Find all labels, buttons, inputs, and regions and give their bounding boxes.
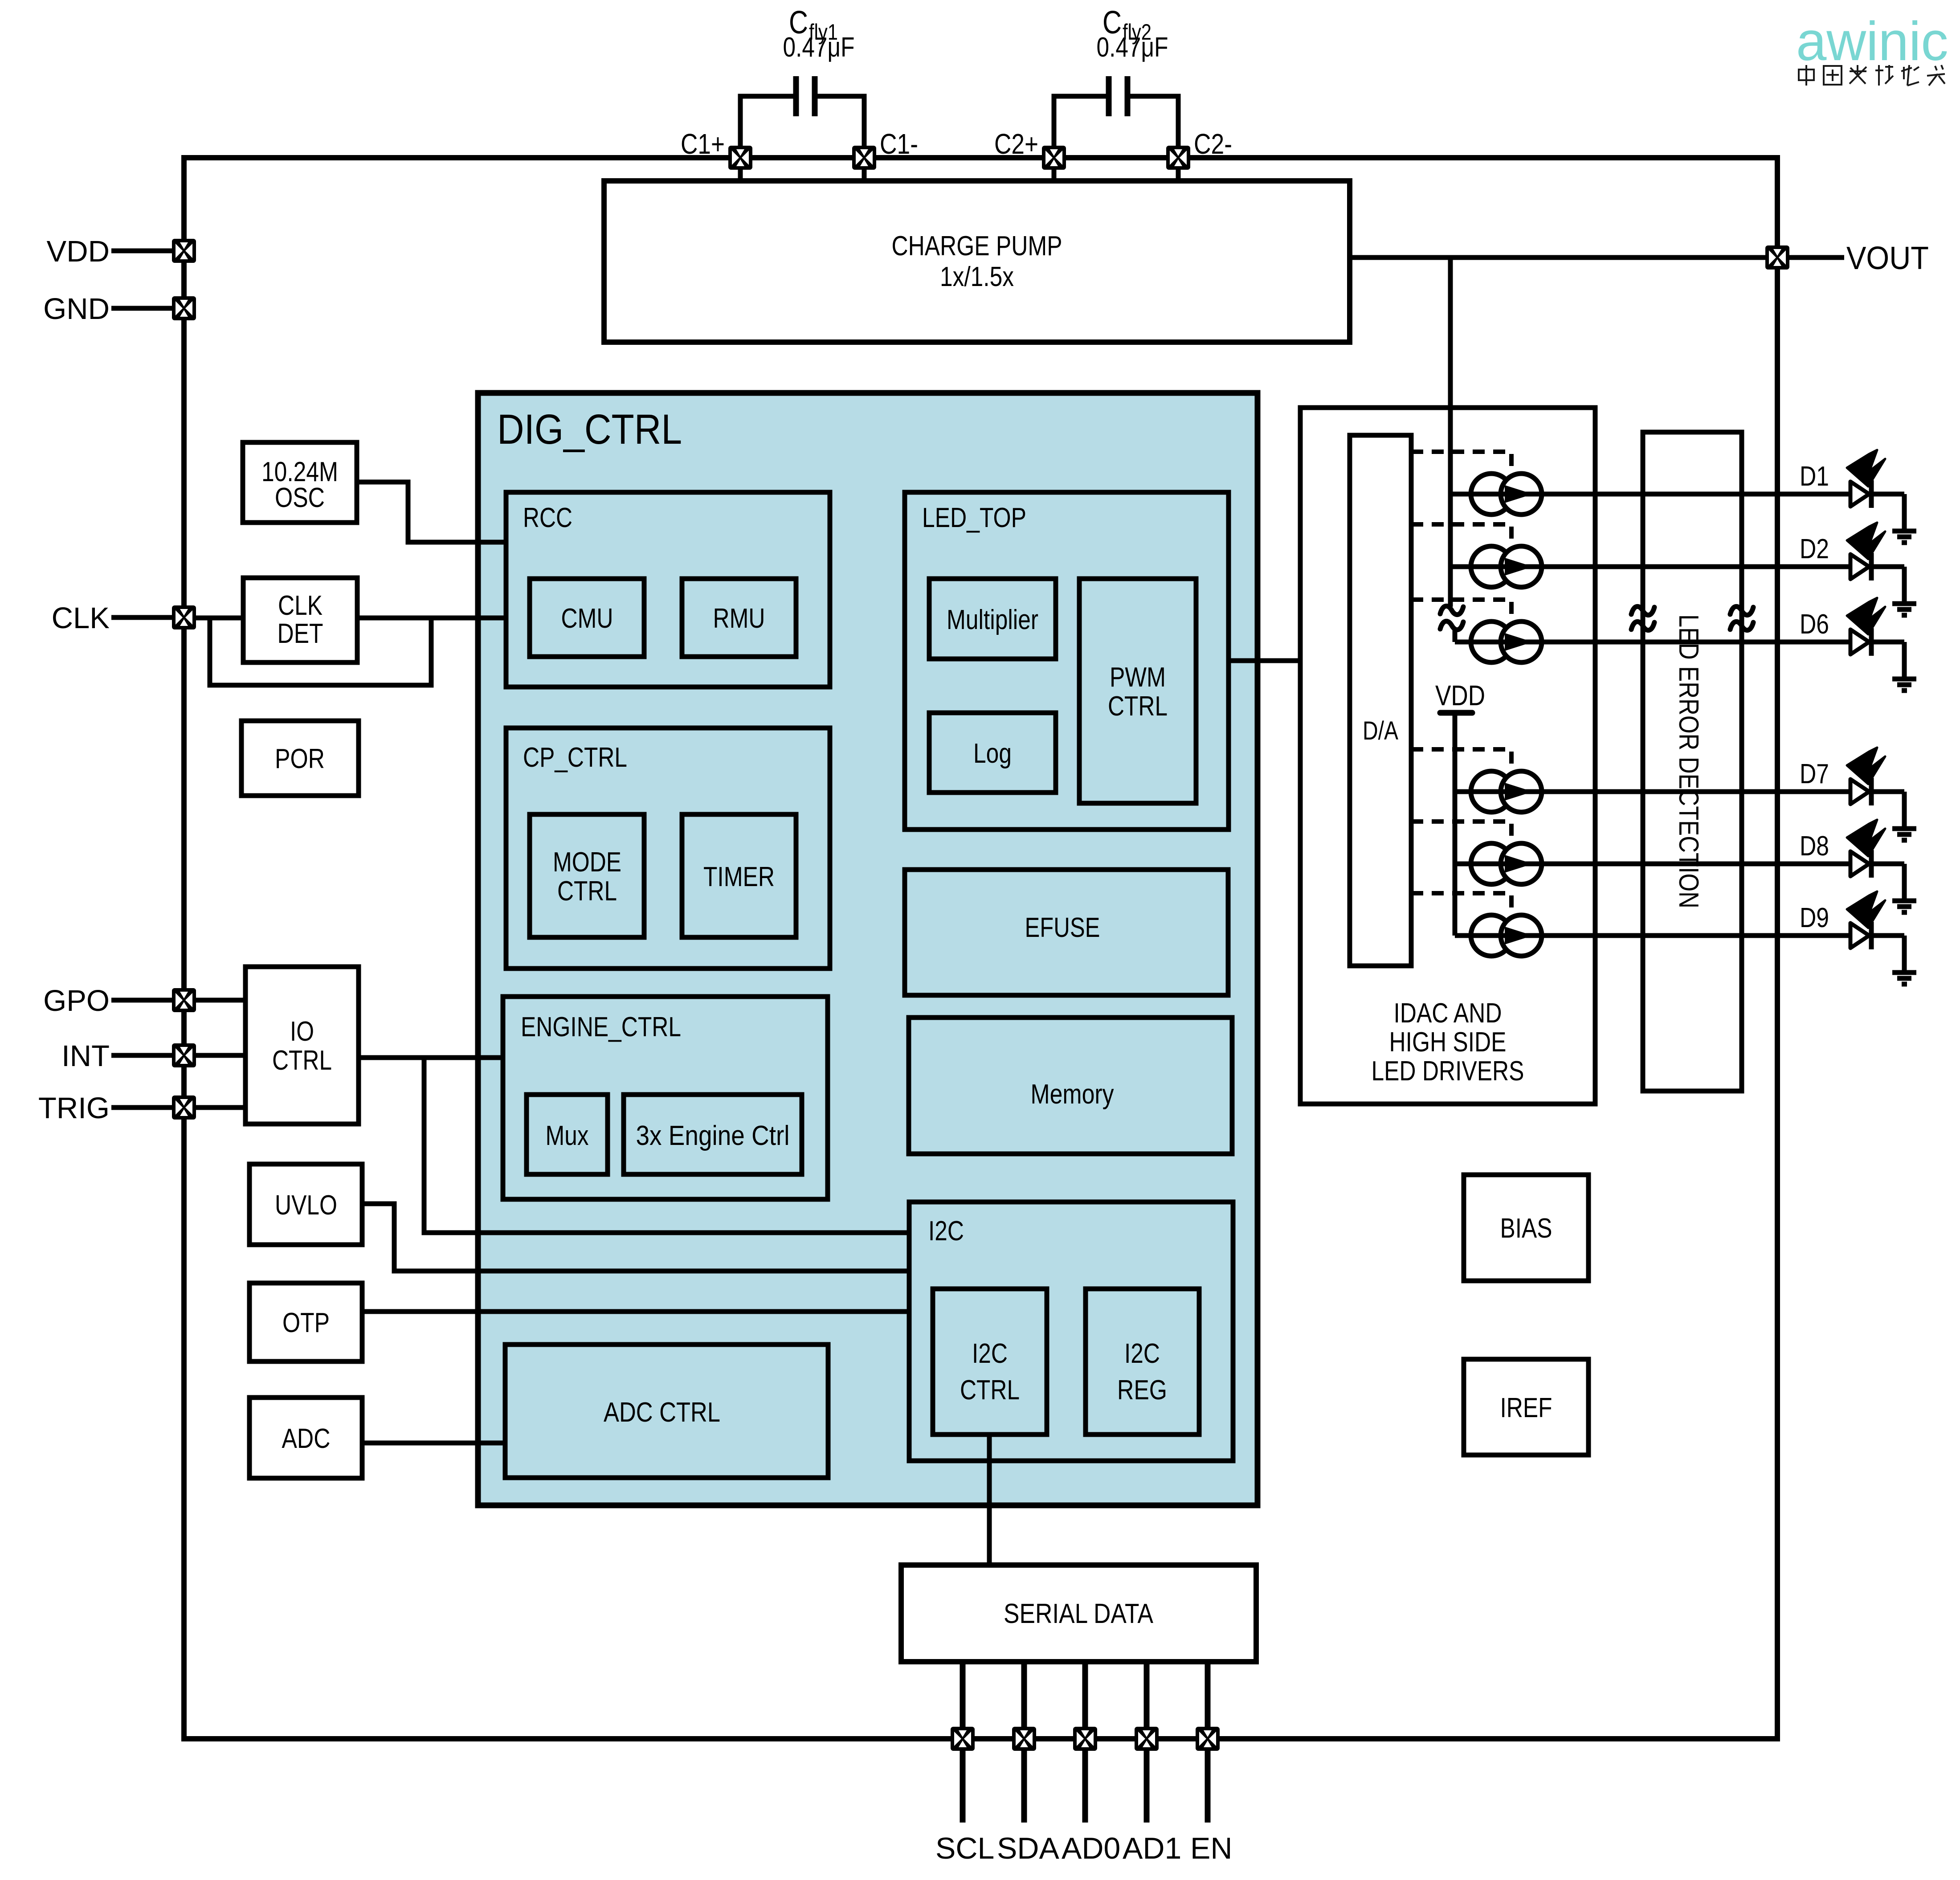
chip boundary box bbox=[184, 158, 1777, 1739]
svg-text:Log: Log bbox=[973, 738, 1012, 769]
squiggle break detection box right edge bbox=[1730, 606, 1753, 630]
svg-text:HIGH SIDE: HIGH SIDE bbox=[1389, 1027, 1507, 1058]
svg-text:D/A: D/A bbox=[1363, 716, 1398, 745]
svg-text:VDD: VDD bbox=[47, 235, 110, 268]
svg-text:CTRL: CTRL bbox=[960, 1375, 1020, 1406]
svg-text:LED DRIVERS: LED DRIVERS bbox=[1372, 1056, 1524, 1087]
OTP block bbox=[249, 1283, 362, 1361]
wire D7 channel bbox=[1455, 789, 1849, 794]
EFUSE block bbox=[905, 870, 1228, 995]
I2C REG block bbox=[1086, 1289, 1199, 1435]
svg-text:TRIG: TRIG bbox=[38, 1091, 110, 1125]
IREF block bbox=[1464, 1359, 1588, 1455]
svg-text:awinic: awinic bbox=[1796, 11, 1948, 72]
pin VOUT bbox=[1765, 241, 1929, 276]
wire CLK DET to RCC bbox=[357, 616, 506, 621]
svg-text:REG: REG bbox=[1117, 1375, 1167, 1406]
svg-text:OSC: OSC bbox=[275, 482, 325, 513]
svg-text:CHARGE PUMP: CHARGE PUMP bbox=[892, 231, 1062, 262]
current source arrow D7 bbox=[1505, 783, 1533, 801]
svg-text:Mux: Mux bbox=[546, 1120, 589, 1151]
wire GND lead bbox=[111, 306, 172, 311]
svg-text:OTP: OTP bbox=[282, 1308, 330, 1338]
dashed D/A control to D8 driver bbox=[1411, 821, 1511, 852]
charge pump U1 bbox=[604, 181, 1350, 342]
LED_TOP block bbox=[905, 492, 1229, 830]
awinic logo bbox=[1796, 11, 1948, 72]
BIAS block bbox=[1464, 1175, 1588, 1281]
svg-text:CLK: CLK bbox=[52, 601, 110, 635]
current source arrow D1 bbox=[1505, 485, 1533, 503]
wire VDD lead bbox=[111, 249, 172, 253]
I2C block bbox=[909, 1202, 1233, 1461]
wire ADC to ADC CTRL bbox=[362, 1441, 505, 1446]
dashed D/A control to D2 driver bbox=[1411, 524, 1511, 555]
wire LED_TOP to IDAC drivers bbox=[1229, 658, 1300, 663]
LED D7 bbox=[1800, 748, 1904, 829]
svg-text:POR: POR bbox=[275, 744, 325, 774]
wire I2C CTRL to SERIAL DATA bbox=[987, 1435, 992, 1565]
svg-text:SERIAL DATA: SERIAL DATA bbox=[1004, 1598, 1154, 1629]
svg-text:PWM: PWM bbox=[1110, 662, 1166, 693]
wire AD1 stub bbox=[1144, 1662, 1150, 1823]
ground D9 bbox=[1892, 973, 1916, 984]
current source D2 driver bbox=[1471, 546, 1542, 587]
svg-text:D1: D1 bbox=[1800, 461, 1829, 492]
wire D9 channel bbox=[1455, 933, 1849, 938]
LED error detection block bbox=[1643, 432, 1742, 1091]
Mux block bbox=[527, 1095, 608, 1174]
current source D7 driver bbox=[1471, 771, 1542, 812]
LED D6 bbox=[1800, 598, 1904, 679]
squiggle break top feed bbox=[1440, 606, 1463, 629]
current source arrow D9 bbox=[1505, 927, 1533, 944]
wire D1 channel bbox=[1450, 492, 1849, 497]
wire C2- stub bbox=[1176, 170, 1181, 181]
current source arrow D2 bbox=[1505, 558, 1533, 576]
svg-text:0.47μF: 0.47μF bbox=[783, 32, 855, 63]
ground D8 bbox=[1892, 901, 1916, 912]
capacitor Cfly1 0.47uF bbox=[740, 5, 864, 146]
Multiplier block bbox=[929, 579, 1056, 659]
CP_CTRL block bbox=[506, 728, 830, 969]
svg-text:AD0: AD0 bbox=[1062, 1831, 1120, 1865]
logo Chinese tagline bbox=[1799, 65, 1945, 86]
pin TRIG bbox=[38, 1091, 196, 1125]
wire OSC to RCC bbox=[357, 482, 506, 542]
MODE CTRL block bbox=[530, 814, 644, 937]
current source D9 driver bbox=[1471, 915, 1542, 956]
pin GPO bbox=[43, 984, 196, 1018]
oscillator 10.24M OSC block bbox=[243, 442, 357, 523]
wire D6 channel bbox=[1455, 640, 1849, 645]
svg-text:I2C: I2C bbox=[928, 1216, 964, 1247]
dashed D/A control to D7 driver bbox=[1411, 749, 1511, 780]
wire TRIG lead bbox=[111, 1105, 245, 1110]
svg-text:0.47μF: 0.47μF bbox=[1097, 32, 1168, 63]
wire AD0 stub bbox=[1082, 1662, 1088, 1823]
LED D8 bbox=[1800, 820, 1904, 901]
CMU block bbox=[530, 579, 644, 657]
wire C1+ stub bbox=[738, 170, 743, 181]
wire feed to D6 driver bbox=[1453, 630, 1458, 642]
wire GPO lead bbox=[111, 998, 245, 1003]
VDD supply symbol bbox=[1435, 679, 1485, 713]
svg-text:VOUT: VOUT bbox=[1846, 241, 1929, 276]
wire CLK lead bbox=[111, 615, 172, 620]
pin EN bbox=[1196, 1727, 1220, 1751]
PWM CTRL block bbox=[1079, 579, 1196, 803]
svg-text:C2-: C2- bbox=[1194, 128, 1232, 160]
svg-text:I2C: I2C bbox=[972, 1338, 1008, 1369]
svg-text:MODE: MODE bbox=[553, 847, 621, 878]
ground D1 bbox=[1892, 531, 1916, 543]
svg-text:IREF: IREF bbox=[1500, 1393, 1552, 1423]
svg-text:DIG_CTRL: DIG_CTRL bbox=[497, 406, 682, 453]
RCC block bbox=[506, 492, 830, 687]
pin CLK bbox=[52, 601, 196, 635]
pin C1+ bbox=[681, 128, 752, 170]
svg-text:ADC CTRL: ADC CTRL bbox=[604, 1397, 720, 1428]
wire IO CTRL to ENGINE_CTRL bbox=[359, 1055, 503, 1060]
svg-text:CTRL: CTRL bbox=[272, 1045, 332, 1076]
RMU block bbox=[682, 579, 796, 657]
svg-text:GND: GND bbox=[43, 292, 110, 326]
svg-text:DET: DET bbox=[278, 618, 323, 649]
pin AD0 bbox=[1073, 1727, 1097, 1751]
svg-text:CP_CTRL: CP_CTRL bbox=[523, 742, 627, 773]
svg-text:CTRL: CTRL bbox=[557, 876, 617, 907]
wire SCL stub bbox=[960, 1662, 966, 1823]
ground D2 bbox=[1892, 604, 1916, 615]
bottom pin labels SCL SDA AD0 AD1 EN bbox=[935, 1831, 1232, 1865]
svg-text:CLK: CLK bbox=[278, 590, 323, 621]
ENGINE_CTRL block bbox=[503, 997, 828, 1199]
wire UVLO to I2C bbox=[362, 1204, 909, 1271]
Log block bbox=[929, 713, 1056, 793]
pin C2+ bbox=[994, 128, 1066, 170]
current source arrow D8 bbox=[1505, 855, 1533, 873]
svg-text:INT: INT bbox=[61, 1039, 110, 1073]
ADC block bbox=[249, 1398, 362, 1478]
CLK DET block bbox=[243, 578, 357, 662]
UVLO block bbox=[249, 1164, 362, 1245]
pin VDD bbox=[47, 235, 196, 268]
LED D1 bbox=[1800, 450, 1904, 531]
svg-text:I2C: I2C bbox=[1124, 1338, 1160, 1369]
svg-text:ENGINE_CTRL: ENGINE_CTRL bbox=[521, 1012, 681, 1042]
wire CLK bypass under CLK DET bbox=[210, 618, 431, 685]
TIMER block bbox=[682, 814, 796, 937]
pin GND bbox=[43, 292, 196, 326]
dashed D/A control to D1 driver bbox=[1411, 452, 1511, 482]
dashed D/A control to D9 driver bbox=[1411, 893, 1511, 924]
pin C1- bbox=[852, 128, 918, 170]
pin SDA bbox=[1012, 1727, 1036, 1751]
svg-text:D6: D6 bbox=[1800, 609, 1829, 640]
wire VOUT feed to top driver group bbox=[1448, 257, 1453, 607]
svg-text:D2: D2 bbox=[1800, 534, 1829, 564]
ground D7 bbox=[1892, 829, 1916, 840]
svg-text:D9: D9 bbox=[1800, 903, 1829, 933]
D/A converter block bbox=[1350, 435, 1411, 966]
svg-text:RCC: RCC bbox=[523, 503, 572, 533]
SERIAL DATA block bbox=[901, 1565, 1256, 1662]
svg-text:Memory: Memory bbox=[1031, 1079, 1114, 1110]
svg-text:D8: D8 bbox=[1800, 831, 1829, 862]
wire CLK pin to CLK DET bbox=[196, 616, 243, 621]
dashed D/A control to D6 driver bbox=[1411, 600, 1511, 630]
svg-text:CMU: CMU bbox=[561, 603, 613, 634]
wire C2+ stub bbox=[1052, 170, 1057, 181]
svg-text:C1+: C1+ bbox=[681, 128, 725, 160]
svg-text:ADC: ADC bbox=[282, 1423, 331, 1454]
wire OTP to I2C bbox=[362, 1309, 909, 1314]
I2C CTRL block bbox=[933, 1289, 1047, 1435]
wire IO CTRL branch to I2C bbox=[424, 1058, 909, 1233]
current source arrow D6 bbox=[1505, 633, 1533, 651]
svg-text:IO: IO bbox=[290, 1016, 314, 1047]
svg-text:EFUSE: EFUSE bbox=[1025, 912, 1100, 943]
DIG_CTRL digital control block bbox=[478, 393, 1258, 1505]
POR block bbox=[241, 721, 359, 796]
wire D8 channel bbox=[1455, 862, 1849, 866]
svg-text:BIAS: BIAS bbox=[1500, 1213, 1552, 1244]
LED D9 bbox=[1800, 891, 1904, 973]
svg-text:LED_TOP: LED_TOP bbox=[922, 503, 1026, 533]
svg-text:RMU: RMU bbox=[713, 603, 765, 634]
svg-text:SDA: SDA bbox=[997, 1831, 1059, 1865]
pin INT bbox=[61, 1039, 196, 1073]
svg-text:VDD: VDD bbox=[1435, 679, 1485, 711]
svg-text:Multiplier: Multiplier bbox=[947, 605, 1038, 635]
LED D2 bbox=[1800, 523, 1904, 604]
wire SDA stub bbox=[1021, 1662, 1027, 1823]
svg-text:C1-: C1- bbox=[880, 128, 918, 160]
IO CTRL block bbox=[245, 967, 359, 1124]
wire VDD feed to bottom driver group bbox=[1453, 713, 1458, 936]
3x Engine Ctrl block bbox=[624, 1095, 802, 1174]
wire charge pump to VOUT bbox=[1350, 255, 1777, 260]
pin AD1 bbox=[1135, 1727, 1159, 1751]
squiggle break detection box left edge bbox=[1631, 606, 1654, 630]
svg-text:EN: EN bbox=[1190, 1831, 1232, 1865]
svg-text:IDAC AND: IDAC AND bbox=[1394, 998, 1502, 1029]
svg-text:C2+: C2+ bbox=[994, 128, 1038, 160]
svg-text:1x/1.5x: 1x/1.5x bbox=[940, 262, 1014, 292]
svg-text:AD1: AD1 bbox=[1123, 1831, 1181, 1865]
wire INT lead bbox=[111, 1053, 245, 1058]
IDAC and high side LED drivers block bbox=[1300, 408, 1595, 1104]
svg-text:UVLO: UVLO bbox=[275, 1190, 337, 1221]
Memory block bbox=[909, 1018, 1232, 1154]
svg-text:3x Engine Ctrl: 3x Engine Ctrl bbox=[636, 1120, 790, 1151]
current source D1 driver bbox=[1471, 474, 1542, 515]
current source D6 driver bbox=[1471, 621, 1542, 662]
pin C2- bbox=[1166, 128, 1232, 170]
wire D2 channel bbox=[1450, 564, 1849, 569]
current source D8 driver bbox=[1471, 843, 1542, 884]
ground D6 bbox=[1892, 679, 1916, 691]
pin SCL bbox=[951, 1727, 975, 1751]
wire C1- stub bbox=[862, 170, 867, 181]
svg-text:SCL: SCL bbox=[935, 1831, 994, 1865]
capacitor Cfly2 0.47uF bbox=[1054, 5, 1178, 146]
wire EN stub bbox=[1205, 1662, 1211, 1823]
svg-text:CTRL: CTRL bbox=[1108, 691, 1168, 722]
ADC CTRL block bbox=[505, 1345, 828, 1478]
svg-text:GPO: GPO bbox=[43, 984, 110, 1018]
svg-text:D7: D7 bbox=[1800, 759, 1829, 789]
svg-text:TIMER: TIMER bbox=[703, 862, 775, 892]
